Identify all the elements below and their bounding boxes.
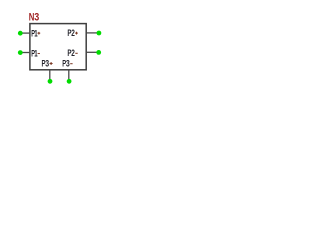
node P1- dot <box>18 50 23 55</box>
pin label P1+ plus mark <box>38 32 41 35</box>
svg-text:3: 3 <box>34 12 39 24</box>
designator N3 <box>29 12 40 24</box>
svg-text:3: 3 <box>45 59 49 70</box>
pin label P1- minus mark <box>38 53 40 55</box>
node P3+ dot <box>48 79 53 84</box>
wire pin P2+ stub <box>87 32 99 34</box>
wire pin P3+ stub <box>49 70 51 81</box>
3-port component N3 body box <box>30 24 86 70</box>
pin label P2+ <box>67 28 75 39</box>
pin label P1- <box>31 48 38 59</box>
pin label P2+ plus mark <box>75 32 78 35</box>
svg-text:3: 3 <box>66 59 70 70</box>
pin label P3+ <box>42 59 50 70</box>
node P1+ dot <box>18 31 23 36</box>
background <box>0 0 120 96</box>
svg-text:1: 1 <box>34 48 38 59</box>
svg-text:2: 2 <box>71 48 75 59</box>
pin label P3- minus mark <box>70 63 72 65</box>
node P2+ dot <box>97 31 102 36</box>
wire pin P1- stub <box>21 52 30 54</box>
svg-text:1: 1 <box>34 28 38 39</box>
wire pin P1+ stub <box>20 32 29 34</box>
pin label P3+ plus mark <box>50 62 53 65</box>
pin label P1+ <box>31 28 38 39</box>
svg-text:2: 2 <box>71 28 75 39</box>
pin label P2- <box>67 48 75 59</box>
node P3- dot <box>67 79 72 84</box>
wire pin P3- stub <box>68 70 70 81</box>
pin label P3- <box>62 59 70 70</box>
node P2- dot <box>96 50 101 55</box>
wire pin P2- stub <box>87 51 99 53</box>
pin label P2- minus mark <box>75 52 77 54</box>
